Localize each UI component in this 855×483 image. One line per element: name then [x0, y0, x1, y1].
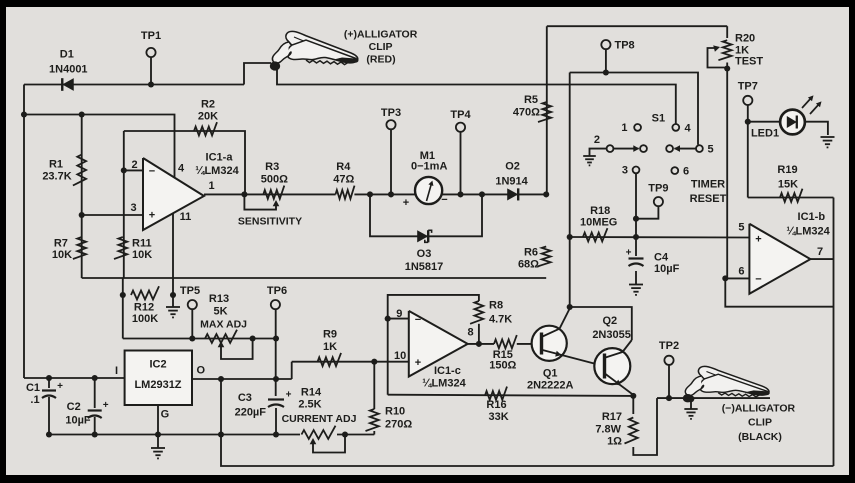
svg-text:IC1-b: IC1-b: [798, 211, 826, 223]
transistor Q2 base bar: [603, 354, 606, 379]
svg-text:5: 5: [738, 222, 744, 234]
wire R19 row: [748, 197, 834, 199]
wire R1 branch: [81, 115, 83, 279]
wire R18/pin5 row: [570, 236, 750, 239]
resistor R14: [302, 426, 336, 439]
switch S1 center right: [666, 145, 673, 152]
svg-text:−: −: [441, 194, 447, 206]
wire R14 right lead: [337, 434, 374, 436]
resistor R6: [537, 247, 550, 267]
capacitor C1 plates: [42, 389, 56, 391]
wire TP2 row: [657, 397, 770, 399]
test point TP1: [146, 48, 155, 57]
arrowhead R3 wiper: [273, 200, 280, 206]
svg-text:4.7K: 4.7K: [489, 313, 512, 325]
wire pin9 stub: [388, 318, 409, 320]
svg-text:TP8: TP8: [615, 40, 635, 52]
node C2 top: [92, 375, 98, 381]
resistor R18: [583, 228, 608, 241]
wire clip(-) ground stub: [690, 399, 692, 409]
LED LED1 arrow b: [810, 103, 820, 114]
test point TP2: [664, 356, 673, 365]
svg-text:+: +: [626, 248, 632, 259]
op-amp IC1-b: [749, 224, 810, 294]
resistor R10: [366, 409, 379, 431]
svg-text:R20: R20: [735, 32, 755, 44]
svg-text:CLIP: CLIP: [369, 41, 393, 53]
wire R10 bottom lead: [373, 431, 375, 435]
svg-text:6: 6: [738, 266, 744, 278]
wire IC2 G stem: [157, 405, 159, 448]
node LED node: [745, 119, 751, 125]
svg-text:R11: R11: [132, 238, 152, 250]
svg-text:100K: 100K: [132, 313, 158, 325]
wire S1 box top: [570, 73, 698, 145]
node A dot left-bus/R1 rail: [21, 111, 27, 117]
wire TP1 stem: [150, 57, 152, 85]
svg-text:TP5: TP5: [180, 285, 200, 297]
svg-text:+: +: [286, 390, 292, 401]
wire IC2 input row: [24, 377, 125, 379]
transistor Q1 emitter inner: [543, 350, 605, 366]
wire R4 to M1: [354, 193, 415, 195]
wire pin10 row: [292, 361, 409, 363]
svg-text:IC1-c: IC1-c: [434, 365, 461, 377]
svg-text:10MEG: 10MEG: [580, 217, 617, 229]
wire IC2 output row: [192, 378, 292, 380]
arrowhead R20 wiper: [713, 45, 720, 51]
svg-text:IC2: IC2: [149, 359, 166, 371]
svg-text:R5: R5: [524, 94, 538, 106]
svg-text:O: O: [197, 364, 206, 376]
svg-text:1N914: 1N914: [495, 176, 528, 188]
node C1 bottom: [46, 431, 52, 437]
svg-text:O2: O2: [505, 160, 520, 172]
svg-text:C1: C1: [26, 382, 40, 394]
node Q1 collector node: [567, 304, 573, 310]
svg-text:4: 4: [685, 122, 692, 134]
svg-text:TP3: TP3: [381, 107, 401, 119]
node TP2 junction: [666, 395, 672, 401]
svg-text:+: +: [57, 381, 63, 392]
meter M1 needle: [427, 183, 432, 201]
svg-text:R17: R17: [602, 411, 622, 423]
alligator clip (+): [270, 31, 358, 70]
svg-text:G: G: [161, 408, 170, 420]
svg-text:C4: C4: [654, 252, 669, 264]
wire right bus: [833, 198, 835, 467]
LED LED1 body: [780, 110, 805, 135]
svg-text:3: 3: [622, 165, 628, 177]
svg-text:220µF: 220µF: [235, 407, 267, 419]
svg-text:6: 6: [683, 165, 689, 177]
test point TP9: [654, 197, 663, 206]
node TP1 junction: [148, 81, 154, 87]
svg-text:5K: 5K: [213, 306, 227, 318]
wire Q2 collector diag: [623, 340, 632, 352]
svg-text:R18: R18: [590, 205, 610, 217]
wire output7 stub: [810, 258, 833, 260]
resistor R1: [73, 155, 86, 186]
switch S1 contact 2: [607, 145, 614, 152]
svg-text:(RED): (RED): [366, 53, 395, 65]
LED LED1 arrow a: [802, 97, 812, 108]
wire TP4 stem: [460, 132, 462, 195]
wire R12 left drop: [122, 278, 124, 339]
svg-text:15K: 15K: [778, 178, 798, 190]
wire TP7/LED column: [747, 105, 749, 198]
wire C4 top lead: [635, 237, 637, 256]
wire pin8 row: [468, 343, 494, 345]
svg-text:R16: R16: [486, 399, 506, 411]
svg-text:¼LM324: ¼LM324: [786, 226, 830, 238]
svg-text:2: 2: [594, 134, 600, 146]
svg-text:O3: O3: [417, 248, 432, 260]
svg-text:+: +: [103, 400, 109, 411]
svg-text:9: 9: [396, 308, 402, 320]
resistor R17: [624, 418, 637, 444]
node pin6: [722, 275, 728, 281]
svg-text:R7: R7: [54, 238, 68, 250]
svg-text:+: +: [755, 234, 761, 246]
svg-text:7.8W: 7.8W: [595, 424, 621, 436]
svg-text:R1: R1: [49, 159, 63, 171]
ground under IC2: [151, 447, 165, 449]
svg-text:CURRENT ADJ: CURRENT ADJ: [282, 413, 357, 425]
wire left bus: [23, 85, 25, 379]
wire TP3 stem: [390, 129, 392, 194]
node TP3 junction: [388, 191, 394, 197]
svg-text:TP2: TP2: [659, 340, 679, 352]
transistor Q2 emitter inner: [606, 374, 634, 395]
wire R12 right ground stub: [172, 295, 174, 307]
capacitor C4 plates: [629, 257, 644, 259]
node R1 top: [79, 111, 85, 117]
capacitor C2 plates: [88, 409, 102, 411]
wire LED cathode lead: [803, 122, 828, 135]
wire TP2 stem: [668, 365, 670, 398]
switch S1 contact 5: [696, 145, 703, 152]
ground under clip(-): [684, 408, 697, 410]
wire S1 pole a: [614, 148, 639, 150]
test point TP3: [386, 120, 395, 129]
node pin2: [121, 167, 127, 173]
wire TP8 stem: [605, 49, 607, 73]
wire M1 to O2: [442, 193, 546, 195]
wire R20 bottom to pin6 column: [726, 63, 728, 279]
wire x221 column: [221, 379, 834, 466]
transistor Q1 collector inner: [543, 329, 560, 337]
svg-text:IC1-a: IC1-a: [206, 152, 234, 164]
node x221 top: [218, 376, 224, 382]
svg-text:¼LM324: ¼LM324: [422, 378, 466, 390]
svg-text:−: −: [415, 314, 421, 326]
svg-text:0−1mA: 0−1mA: [411, 160, 447, 172]
resistor R2: [194, 122, 217, 135]
wire R20 top lead: [726, 26, 728, 38]
svg-text:10K: 10K: [52, 249, 72, 261]
resistor R12: [131, 286, 159, 299]
svg-text:TP1: TP1: [141, 30, 161, 42]
resistor R20: [718, 40, 731, 60]
wire R10 column: [373, 362, 375, 409]
wire R3 wiper: [244, 194, 276, 209]
node pin9: [385, 316, 391, 322]
node emitter node: [630, 393, 636, 399]
transistor Q1 body: [532, 326, 567, 361]
wire pin6 stub: [725, 277, 749, 279]
wire LED anode lead: [748, 121, 781, 123]
wire bias row: [123, 338, 276, 340]
switch S1 contact 4: [672, 124, 679, 131]
svg-text:R3: R3: [265, 161, 279, 173]
op-amp IC1-a: [143, 158, 204, 230]
regulator IC2 box: [125, 351, 192, 406]
node pin10/R10: [371, 359, 377, 365]
svg-text:TP4: TP4: [450, 109, 471, 121]
diode D1: [62, 78, 74, 91]
wire clip bump up: [244, 63, 271, 85]
resistor R8: [470, 301, 483, 324]
svg-text:+: +: [403, 197, 409, 209]
svg-text:LED1: LED1: [751, 128, 779, 140]
node x221 mid: [218, 431, 224, 437]
wire pin6 feedback: [725, 278, 833, 306]
svg-text:2N3055: 2N3055: [592, 329, 631, 341]
svg-text:1N5817: 1N5817: [405, 261, 444, 273]
svg-text:−: −: [149, 166, 155, 178]
wire bottom cap rail: [49, 434, 300, 436]
svg-text:47Ω: 47Ω: [333, 174, 354, 186]
svg-text:R10: R10: [385, 406, 405, 418]
ground under contact 2: [583, 155, 596, 157]
wire S1 box left: [569, 73, 571, 308]
wire R9 left corner: [291, 362, 293, 379]
transistor Q1 base bar: [540, 333, 543, 355]
wire C2 leads: [94, 378, 96, 408]
svg-text:R19: R19: [777, 164, 797, 176]
node TP9 junction: [633, 216, 639, 222]
switch S1 contact 6: [671, 167, 678, 174]
resistor R3: [263, 186, 284, 199]
svg-text:4: 4: [178, 163, 185, 175]
svg-text:20K: 20K: [198, 111, 218, 123]
svg-text:5: 5: [708, 144, 714, 156]
svg-text:10: 10: [394, 350, 406, 362]
wire pin3 stub: [82, 214, 143, 216]
node C2 bottom: [92, 431, 98, 437]
resistor R16: [485, 387, 507, 400]
node C4 top: [633, 234, 639, 240]
node C3 bottom: [273, 431, 279, 437]
capacitor C3 plates: [268, 398, 284, 400]
switch S1 center left: [640, 145, 647, 152]
svg-text:.1: .1: [30, 394, 39, 406]
node TP4 junction: [457, 191, 463, 197]
svg-text:R9: R9: [323, 329, 337, 341]
node pin3: [79, 212, 85, 218]
wire IC1a output row: [204, 193, 336, 195]
switch S1 contact 1: [634, 124, 641, 131]
svg-text:TP9: TP9: [648, 183, 668, 195]
svg-text:R13: R13: [209, 293, 229, 305]
svg-text:TP7: TP7: [738, 81, 758, 93]
node O2/R5/R6 node: [543, 191, 549, 197]
svg-text:150Ω: 150Ω: [489, 360, 516, 372]
wire timer top rail: [547, 25, 727, 27]
svg-text:R8: R8: [489, 299, 503, 311]
wire pin2 feedback corner: [123, 131, 125, 278]
svg-text:+: +: [415, 357, 421, 369]
test point TP4: [456, 123, 465, 132]
wire R14 wiper: [313, 435, 345, 453]
wire Q1 collector: [560, 309, 570, 329]
wire TP6/C3 column: [275, 309, 277, 396]
wire clip bump down: [277, 68, 676, 124]
resistor R9: [318, 353, 342, 366]
svg-text:10µF: 10µF: [65, 414, 91, 426]
svg-text:TP6: TP6: [267, 285, 287, 297]
LED LED1 symbol: [787, 116, 797, 128]
test point TP7: [743, 96, 752, 105]
svg-text:1N4001: 1N4001: [49, 64, 88, 76]
resistor R11: [114, 237, 127, 259]
svg-text:C3: C3: [238, 392, 252, 404]
node R12 right: [170, 292, 176, 298]
svg-text:TIMER: TIMER: [691, 179, 725, 191]
ground under LED: [821, 136, 835, 138]
svg-text:R12: R12: [134, 302, 154, 314]
switch S1 contact 3: [633, 167, 640, 174]
node O3 left: [367, 191, 373, 197]
svg-text:23.7K: 23.7K: [42, 171, 71, 183]
ground under R12: [166, 306, 180, 308]
wire R16 row: [388, 395, 634, 396]
svg-text:¼LM324: ¼LM324: [195, 165, 239, 177]
wire R5 column: [546, 26, 548, 194]
svg-text:TEST: TEST: [735, 55, 763, 67]
svg-text:RESET: RESET: [690, 193, 727, 205]
svg-text:Q1: Q1: [543, 368, 558, 380]
transistor Q2 collector inner: [606, 352, 623, 358]
svg-text:C2: C2: [67, 401, 81, 413]
node R13 wiper junction: [250, 335, 256, 341]
wire S1 pole b: [675, 148, 697, 150]
resistor R5: [538, 102, 551, 122]
node R12 left: [120, 292, 126, 298]
wire pin2 stub: [124, 169, 143, 171]
wire R2 row: [124, 131, 245, 194]
test point TP6: [271, 300, 280, 309]
node R8 bottom: [476, 341, 482, 347]
svg-text:1: 1: [621, 122, 627, 134]
svg-text:I: I: [115, 365, 118, 377]
svg-text:CLIP: CLIP: [748, 417, 772, 429]
svg-text:(+)ALLIGATOR: (+)ALLIGATOR: [344, 29, 418, 41]
svg-text:1: 1: [208, 180, 214, 192]
node TP5 junction: [189, 335, 195, 341]
svg-text:10K: 10K: [132, 249, 152, 261]
svg-text:Q2: Q2: [602, 315, 617, 327]
wire R20 wiper: [708, 48, 728, 68]
wire contact2 ground stub: [590, 149, 607, 156]
svg-text:+: +: [149, 210, 155, 222]
wire collector rail to Q2: [570, 307, 632, 340]
test point TP5: [188, 300, 197, 309]
svg-text:2N2222A: 2N2222A: [527, 380, 574, 392]
resistor R4: [336, 186, 355, 199]
wire TP9 stem: [636, 206, 658, 219]
svg-text:R4: R4: [336, 161, 351, 173]
node G stem bottom: [155, 431, 161, 437]
wire C3 bottom lead: [275, 408, 277, 435]
svg-text:1K: 1K: [323, 341, 337, 353]
node output/R3: [241, 191, 247, 197]
svg-text:D1: D1: [60, 49, 74, 61]
meter M1 body: [415, 177, 442, 204]
wire +V top rail: [24, 84, 244, 86]
svg-text:R6: R6: [524, 247, 538, 259]
svg-text:2.5K: 2.5K: [298, 399, 321, 411]
svg-text:68Ω: 68Ω: [518, 259, 539, 271]
wire R17 top lead: [632, 396, 634, 414]
svg-text:R14: R14: [301, 387, 322, 399]
node C1 top: [46, 375, 52, 381]
svg-text:8: 8: [467, 327, 473, 339]
transistor Q2 body: [594, 348, 630, 384]
svg-text:(−)ALLIGATOR: (−)ALLIGATOR: [722, 402, 796, 414]
wire C4 bottom lead: [635, 271, 637, 285]
svg-text:470Ω: 470Ω: [513, 107, 540, 119]
wire R1 rail: [24, 115, 175, 178]
wire C1 leads: [48, 378, 50, 388]
transistor Q1 emitter arrow: [555, 351, 561, 357]
wire R15 to Q1 base: [517, 343, 542, 345]
node C3 top: [273, 376, 279, 382]
test point TP8: [601, 40, 610, 49]
svg-text:SENSITIVITY: SENSITIVITY: [238, 216, 302, 228]
svg-text:33K: 33K: [489, 411, 509, 423]
svg-text:270Ω: 270Ω: [385, 419, 412, 431]
svg-text:7: 7: [817, 246, 823, 258]
wire R13 wiper: [221, 339, 253, 360]
node R14 wiper junction: [342, 431, 348, 437]
arrowhead R13 wiper: [218, 341, 225, 347]
svg-text:S1: S1: [652, 112, 665, 124]
svg-text:10µF: 10µF: [654, 263, 680, 275]
resistor R15: [494, 335, 517, 348]
wire R17 bottom U: [633, 398, 657, 455]
node clip(-) attach: [688, 395, 695, 402]
svg-text:LM2931Z: LM2931Z: [134, 379, 181, 391]
wire pin11 drop: [172, 213, 174, 295]
wire IC1c pin9 loop: [388, 295, 479, 395]
wire contact3 stem: [635, 173, 637, 237]
wire TP5 stem: [191, 309, 193, 339]
svg-text:R2: R2: [201, 99, 215, 111]
diode O3: [417, 230, 428, 242]
svg-text:−: −: [755, 274, 761, 286]
resistor R19: [780, 189, 803, 202]
resistor R7: [73, 237, 86, 259]
svg-text:2: 2: [132, 159, 138, 171]
svg-text:3: 3: [130, 202, 136, 214]
arrowhead S1 pole b: [674, 145, 680, 152]
resistor R13: [205, 330, 237, 343]
svg-text:500Ω: 500Ω: [261, 174, 288, 186]
node R20 bottom: [724, 65, 730, 71]
node TP8 junction: [603, 69, 609, 75]
